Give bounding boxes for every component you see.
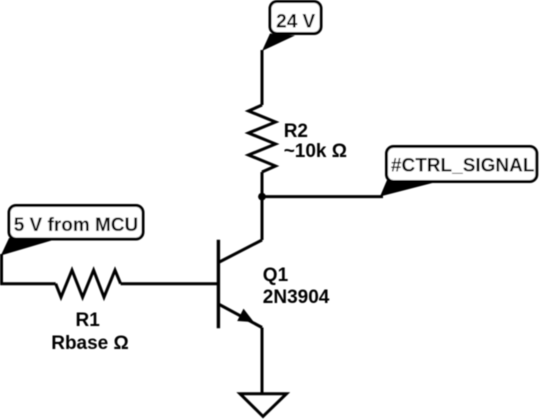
wire R1 to base (121, 282, 217, 285)
transistor Q1 base bar (217, 240, 220, 328)
svg-text:~10k Ω: ~10k Ω (284, 141, 347, 162)
wire 5V label to R1 (2, 254, 56, 284)
resistor R1 (56, 270, 121, 297)
net label #CTRL_SIGNAL box (387, 147, 537, 182)
net label 24 V pointer (262, 34, 295, 52)
svg-text:24 V: 24 V (276, 12, 315, 33)
transistor Q1 emitter arrow (237, 309, 254, 323)
svg-text:R2: R2 (284, 121, 308, 142)
svg-text:5 V from MCU: 5 V from MCU (14, 215, 139, 236)
transistor Q1 emitter lead (218, 304, 262, 328)
ground (240, 394, 287, 417)
transistor Q1 collector lead (218, 240, 262, 263)
net label #CTRL_SIGNAL pointer (380, 180, 444, 197)
svg-text:2N3904: 2N3904 (263, 287, 330, 308)
wire R2 bottom to collector (261, 172, 264, 240)
wire node to #CTRL_SIGNAL pointer (262, 195, 384, 198)
svg-text:Rbase Ω: Rbase Ω (51, 333, 129, 354)
svg-text:Q1: Q1 (263, 265, 289, 286)
wire emitter to ground (261, 328, 264, 394)
resistor R2 (249, 105, 276, 172)
net label 5 V from MCU box (9, 206, 143, 240)
net label 24 V box (270, 2, 321, 34)
svg-text:R1: R1 (76, 310, 101, 331)
svg-text:#CTRL_SIGNAL: #CTRL_SIGNAL (391, 156, 535, 177)
node collector junction (258, 193, 266, 201)
net label 5 V from MCU pointer (1, 238, 60, 256)
wire 24V rail to R2 top (261, 50, 264, 105)
